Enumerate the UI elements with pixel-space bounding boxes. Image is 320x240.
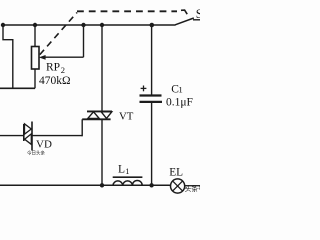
resistor RP2 (potentiometer body) xyxy=(32,47,40,70)
dashed mechanical link diagonal xyxy=(40,13,77,55)
svg-text:470kΩ: 470kΩ xyxy=(39,75,71,87)
wire RP2 top lead xyxy=(34,25,36,47)
svg-text:S: S xyxy=(196,7,200,21)
node dot VT bottom xyxy=(100,183,104,187)
inductor L1 winding xyxy=(113,180,142,185)
wire left jog from top bus down to RP2 bottom rail xyxy=(3,25,13,89)
triac VT right triangle xyxy=(101,112,112,119)
C1 polarity plus xyxy=(141,86,147,92)
diac VD left bar xyxy=(23,124,25,141)
svg-text:L: L xyxy=(118,164,125,176)
wire bottom bus xyxy=(0,184,171,186)
lamp EL xyxy=(171,179,185,193)
wire VD right lead to gate riser xyxy=(32,135,82,137)
svg-text:EL: EL xyxy=(169,167,183,179)
diac VD top triangle xyxy=(25,124,32,134)
svg-text:RP: RP xyxy=(46,62,60,74)
RP2 wiper arrow xyxy=(39,55,84,60)
node dot VT branch xyxy=(100,23,104,27)
svg-text:今日头条: 今日头条 xyxy=(27,150,45,157)
wire C1 top lead xyxy=(151,25,153,95)
wire VT top lead xyxy=(101,25,103,111)
svg-text:0.1μF: 0.1μF xyxy=(166,97,193,109)
wire lamp right lead xyxy=(185,185,200,187)
wire VD left lead xyxy=(0,135,24,137)
svg-text:VT: VT xyxy=(119,110,134,122)
diac VD right bar xyxy=(31,122,33,151)
wire wiper riser to top bus xyxy=(83,25,85,57)
capacitor C1 top plate xyxy=(140,94,162,96)
svg-text:1: 1 xyxy=(125,166,129,176)
wire RP2 bottom lead xyxy=(34,69,36,88)
node dot top-left xyxy=(1,23,5,27)
svg-text:1: 1 xyxy=(178,85,182,95)
diac VD bottom triangle xyxy=(25,134,32,145)
inductor L1 core bar xyxy=(113,176,143,178)
capacitor C1 bottom plate xyxy=(140,101,163,103)
svg-text:头条号: 头条号 xyxy=(185,184,201,193)
node dot C1 bottom xyxy=(149,183,153,187)
node dot C1 branch xyxy=(150,23,155,28)
node dot RP2 branch xyxy=(33,23,37,27)
wire left rail y=88.5 xyxy=(0,87,35,89)
dashed link end tick xyxy=(181,10,187,14)
wire gate riser xyxy=(81,119,83,136)
wire top bus xyxy=(3,24,176,26)
svg-text:VD: VD xyxy=(36,139,52,151)
svg-text:2: 2 xyxy=(61,65,65,75)
dashed mechanical link horizontal xyxy=(77,10,177,12)
wire C1 bottom lead xyxy=(151,103,153,185)
triac VT left triangle xyxy=(88,112,99,119)
switch right contact wire xyxy=(193,19,200,21)
node dot wiper branch xyxy=(81,23,85,27)
triac VT top bar xyxy=(87,110,112,112)
wire VT bottom lead xyxy=(101,119,103,185)
triac VT bottom bar with gate lead xyxy=(82,118,110,120)
switch S lever xyxy=(175,18,194,25)
